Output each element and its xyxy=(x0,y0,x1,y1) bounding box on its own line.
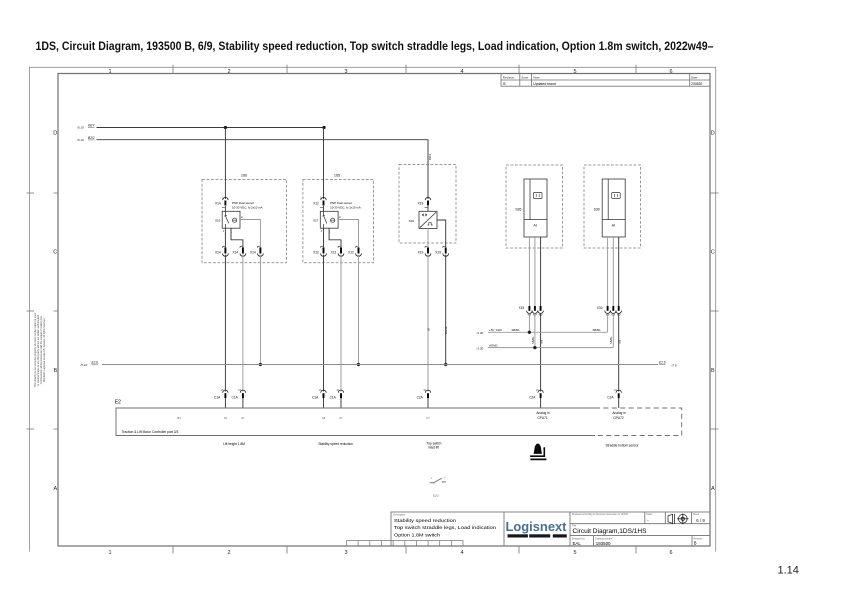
wire sensor output 2 to X14 pin 3 xyxy=(240,220,260,248)
svg-text:/5.10: /5.10 xyxy=(76,126,84,130)
svg-text:Produced according to document: Produced according to document instructi… xyxy=(572,513,629,516)
connector X14 pin 1 (bottom) xyxy=(222,246,228,256)
svg-text:Lift height 1.8M: Lift height 1.8M xyxy=(223,442,245,446)
wire C1A feed 4 xyxy=(340,255,342,392)
connector X14 pin 1 (top) xyxy=(223,197,228,205)
svg-text:/5.10: /5.10 xyxy=(76,138,84,142)
svg-text:D: D xyxy=(711,131,715,137)
connector X12 pin 1 (top) xyxy=(321,197,326,205)
load indication icon xyxy=(534,444,542,454)
svg-text:6: 6 xyxy=(669,550,672,556)
svg-text:E2: E2 xyxy=(115,400,121,406)
svg-text:Zone: Zone xyxy=(521,75,528,79)
load sensor S26 body xyxy=(524,179,547,237)
svg-text:S20: S20 xyxy=(433,494,439,498)
sensor S16 body xyxy=(222,211,240,228)
wires S26 to connector X15 xyxy=(528,237,530,306)
svg-text:X19: X19 xyxy=(435,251,441,255)
sensor S17 body xyxy=(320,211,338,228)
svg-text:193500: 193500 xyxy=(596,541,611,546)
svg-text:S17: S17 xyxy=(313,218,319,222)
svg-text:X19: X19 xyxy=(418,201,424,205)
svg-text:3: 3 xyxy=(344,69,347,75)
svg-text:B4: B4 xyxy=(177,416,181,420)
svg-text:C2A: C2A xyxy=(607,395,614,399)
svg-text:X12: X12 xyxy=(313,251,319,255)
graphic scale ruler xyxy=(347,541,464,546)
wire top switch signal xyxy=(427,255,429,392)
svg-text:Top switch straddle legs, Load: Top switch straddle legs, Load indicatio… xyxy=(394,525,496,531)
svg-text:2: 2 xyxy=(227,69,230,75)
connector C1A pin at x=323.5 xyxy=(321,390,326,398)
svg-text:Analog in: Analog in xyxy=(612,411,626,415)
pin numbers on E2 xyxy=(177,416,430,420)
Analog in CPU71 xyxy=(536,411,626,420)
wire sensor pin 1 to X14 pin 2 xyxy=(231,228,243,247)
wire S19 main down xyxy=(427,229,429,248)
wire sensor output 2 to X12 pin 3 xyxy=(338,220,358,248)
wire sensor pin 4 down xyxy=(224,228,226,247)
svg-text:B: B xyxy=(694,541,697,546)
top switch enclosure (dashed) xyxy=(399,165,456,244)
connector X14 pin 2 (bottom) xyxy=(240,246,246,256)
connector X12 pin 3 (bottom) xyxy=(355,246,361,256)
svg-text:1: 1 xyxy=(108,69,111,75)
svg-text:CPU71: CPU71 xyxy=(537,416,548,420)
wire S26 AGND to net xyxy=(534,314,536,348)
svg-text:SB/BL: SB/BL xyxy=(531,336,535,344)
svg-text:X14: X14 xyxy=(233,251,239,255)
wire sensor pin 1 to X12 pin 2 xyxy=(329,228,341,247)
sensor assembly 1S5 dashed enclosure xyxy=(303,180,374,263)
svg-text:AI: AI xyxy=(534,223,537,227)
svg-text:Stability speed reduction: Stability speed reduction xyxy=(318,442,353,446)
svg-text:X14: X14 xyxy=(215,251,221,255)
svg-text:5: 5 xyxy=(573,69,576,75)
svg-text:–: – xyxy=(647,518,649,522)
load sensor S30 body xyxy=(602,179,625,237)
svg-text:C2A: C2A xyxy=(529,395,536,399)
svg-text:1DS, Circuit Diagram, 193500 B: 1DS, Circuit Diagram, 193500 B, 6/9, Sta… xyxy=(36,41,715,53)
column numbers xyxy=(108,69,672,556)
svg-text:BN: BN xyxy=(539,340,543,344)
svg-text:6: 6 xyxy=(669,69,672,75)
svg-text:Sheet: Sheet xyxy=(693,513,699,516)
svg-text:1S6: 1S6 xyxy=(241,173,247,177)
output circle symbol xyxy=(233,218,237,222)
svg-text:KEY: KEY xyxy=(88,124,95,128)
svg-text:C: C xyxy=(53,250,57,256)
svg-text:X14: X14 xyxy=(215,201,221,205)
wire box1 return to bus xyxy=(259,255,261,365)
wire supply drop into S16 xyxy=(224,128,226,200)
svg-text:X12: X12 xyxy=(313,201,319,205)
svg-text:BN: BN xyxy=(618,340,622,344)
svg-text:AGND: AGND xyxy=(488,344,497,348)
svg-text:SB/BL: SB/BL xyxy=(609,336,613,344)
wire top switch return to bus xyxy=(445,255,447,365)
svg-text:Logisnext: Logisnext xyxy=(506,520,568,534)
svg-text:Circuit Diagram,1DS/1HS: Circuit Diagram,1DS/1HS xyxy=(573,529,647,535)
svg-text:Note: Note xyxy=(533,75,540,79)
svg-text:X19: X19 xyxy=(418,251,424,255)
svg-text:+5V_CHC: +5V_CHC xyxy=(489,328,503,332)
row boundary ticks xyxy=(27,193,719,429)
connector C1A pin at x=341 xyxy=(338,390,343,398)
svg-text:07: 07 xyxy=(241,416,244,420)
svg-text:230530: 230530 xyxy=(691,82,702,86)
svg-text:Description: Description xyxy=(394,514,406,517)
svg-text:mast lift: mast lift xyxy=(428,446,439,450)
svg-text:C1A: C1A xyxy=(312,395,319,399)
svg-text:B2/4: B2/4 xyxy=(428,154,432,160)
connector C2A pin at x=618.7 xyxy=(616,390,621,398)
svg-text:A: A xyxy=(53,486,57,492)
connector X19 pin 1 (bottom) xyxy=(425,246,431,256)
svg-text:4: 4 xyxy=(460,69,463,75)
svg-text:PNP Dual sensor: PNP Dual sensor xyxy=(232,201,254,205)
svg-text:Analog in: Analog in xyxy=(536,411,550,415)
junction KEY/box1 xyxy=(224,126,227,129)
svg-text:W: W xyxy=(426,328,430,331)
svg-text:1: 1 xyxy=(108,550,111,556)
svg-text:Updated brand: Updated brand xyxy=(533,82,556,86)
svg-text:/1.30: /1.30 xyxy=(476,346,484,350)
wire S30 AGND to net xyxy=(612,314,614,348)
svg-text:C: C xyxy=(711,250,715,256)
svg-text:/7.9: /7.9 xyxy=(671,363,677,367)
connector C1A pin at x=225.4 xyxy=(223,390,228,398)
title block xyxy=(391,512,710,546)
svg-text:Option 1.8M switch: Option 1.8M switch xyxy=(394,533,440,539)
svg-text:04: 04 xyxy=(224,416,227,420)
junction AGND/S26 xyxy=(533,346,536,349)
diamond symbol xyxy=(422,213,427,216)
svg-text:Date: Date xyxy=(691,75,698,79)
connector X19 pin 1 (top) xyxy=(425,197,430,205)
connector X12 pin 2 (bottom) xyxy=(338,246,344,256)
svg-text:5: 5 xyxy=(573,550,576,556)
wire S26 +5V to net xyxy=(528,314,530,333)
wire S26 signal xyxy=(540,314,542,392)
svg-text:D: D xyxy=(53,131,57,137)
connector C2A pin at x=428 xyxy=(425,390,430,398)
svg-text:X12: X12 xyxy=(331,251,337,255)
junction bus/box1 return xyxy=(259,363,262,366)
connector X14 pin 3 (bottom) xyxy=(257,246,263,256)
outer border frame xyxy=(29,67,716,551)
svg-text:B2/2: B2/2 xyxy=(88,136,95,140)
svg-text:CPU72: CPU72 xyxy=(613,416,624,420)
svg-text:B: B xyxy=(711,368,715,374)
svg-text:Revision: Revision xyxy=(503,75,515,79)
strain gauge icon xyxy=(612,193,621,199)
svg-text:AI: AI xyxy=(612,223,615,227)
wire into X19 top xyxy=(427,165,429,200)
wire S30 signal xyxy=(618,314,620,392)
wire supply drop into S17 xyxy=(323,128,325,200)
connector C2A pin at x=540.6 xyxy=(538,390,543,398)
svg-text:Straddle bottom sensor: Straddle bottom sensor xyxy=(606,443,640,447)
column boundary ticks xyxy=(173,65,636,554)
svg-text:10-30 VDC, Io 2x10 mA: 10-30 VDC, Io 2x10 mA xyxy=(232,205,263,209)
svg-text:C1A: C1A xyxy=(214,395,221,399)
row letters xyxy=(53,131,715,493)
strain gauge icon xyxy=(534,193,543,199)
proximity switch S19 body xyxy=(419,211,437,228)
svg-text:2: 2 xyxy=(227,550,230,556)
svg-text:X12: X12 xyxy=(348,251,354,255)
svg-text:Title: Title xyxy=(572,525,577,528)
wires S30 to connector X30 xyxy=(607,237,609,306)
svg-text:1.14: 1.14 xyxy=(778,565,799,577)
svg-text:07: 07 xyxy=(340,416,343,420)
load sensor S26 dashed enclosure xyxy=(506,165,563,248)
svg-text:BL/W: BL/W xyxy=(444,326,448,334)
junction bus/box2 return xyxy=(357,363,360,366)
load sensor S30 dashed enclosure xyxy=(584,165,641,248)
svg-text:S16: S16 xyxy=(215,218,221,222)
junction bus/top switch xyxy=(444,363,447,366)
drawing frame xyxy=(58,74,710,547)
wire S19 output right xyxy=(437,220,446,247)
copyright notice (rotated) xyxy=(34,312,46,387)
connector X19 pin 2 (bottom) xyxy=(443,246,449,256)
svg-text:SB/BL: SB/BL xyxy=(593,328,602,332)
svg-text:X15: X15 xyxy=(519,306,525,310)
function captions xyxy=(223,441,639,449)
wire C1A feed 2 xyxy=(242,255,244,392)
svg-text:E2.b: E2.b xyxy=(659,360,666,364)
svg-text:C1A: C1A xyxy=(330,395,337,399)
svg-text:4: 4 xyxy=(460,550,463,556)
svg-text:Traction & Lift Motor Controll: Traction & Lift Motor Controller part 3/… xyxy=(122,430,179,434)
wire C1A feed 1 xyxy=(224,255,226,392)
svg-text:6 / 9: 6 / 9 xyxy=(696,518,705,523)
svg-text:C1A: C1A xyxy=(232,395,239,399)
switch contact inside S16 xyxy=(224,211,229,228)
wire S30 +5V to net xyxy=(607,314,609,333)
wire C1A feed 3 xyxy=(323,255,325,392)
svg-text:10-30 VDC, Io 2x10 mA: 10-30 VDC, Io 2x10 mA xyxy=(330,205,361,209)
svg-text:S19: S19 xyxy=(409,219,415,223)
svg-text:C8: C8 xyxy=(322,416,326,420)
svg-text:SB/BL: SB/BL xyxy=(512,328,521,332)
svg-text:/5.10: /5.10 xyxy=(80,363,88,367)
output circle symbol xyxy=(331,218,335,222)
connector C1A pin at x=242.9 xyxy=(240,390,245,398)
svg-text:S30: S30 xyxy=(594,208,600,212)
svg-text:A: A xyxy=(711,486,715,492)
svg-text:X14: X14 xyxy=(250,251,256,255)
svg-text:EAL: EAL xyxy=(573,541,582,546)
svg-text:S26: S26 xyxy=(515,208,521,212)
svg-text:3: 3 xyxy=(344,550,347,556)
svg-text:Stability speed reduction: Stability speed reduction xyxy=(394,518,456,524)
wire sensor pin 4 down xyxy=(323,228,325,247)
svg-text:1S5: 1S5 xyxy=(334,173,340,177)
option switch S20 xyxy=(430,478,447,483)
projection symbol xyxy=(668,514,689,524)
revision table xyxy=(501,74,710,87)
connector X12 pin 1 (bottom) xyxy=(320,246,326,256)
pulse symbol xyxy=(428,223,433,225)
svg-text:Scale: Scale xyxy=(646,514,652,516)
junction +5V/S26 xyxy=(528,331,531,334)
svg-text:/1.30: /1.30 xyxy=(476,331,484,335)
svg-text:PNP Dual sensor: PNP Dual sensor xyxy=(330,201,352,205)
svg-text:X30: X30 xyxy=(597,306,603,310)
junction KEY/box2 xyxy=(322,126,325,129)
switch contact inside S17 xyxy=(322,211,327,228)
svg-text:C2A: C2A xyxy=(417,395,424,399)
svg-text:B: B xyxy=(53,368,57,374)
svg-text:Mitsubishi Logisnext Europe AB: Mitsubishi Logisnext Europe AB, Sweden. … xyxy=(43,317,46,382)
svg-text:E2.b: E2.b xyxy=(92,361,99,365)
sensor assembly 1S6 dashed enclosure xyxy=(202,180,287,263)
svg-text:C7: C7 xyxy=(426,416,430,420)
wire box2 return to bus xyxy=(358,255,360,365)
